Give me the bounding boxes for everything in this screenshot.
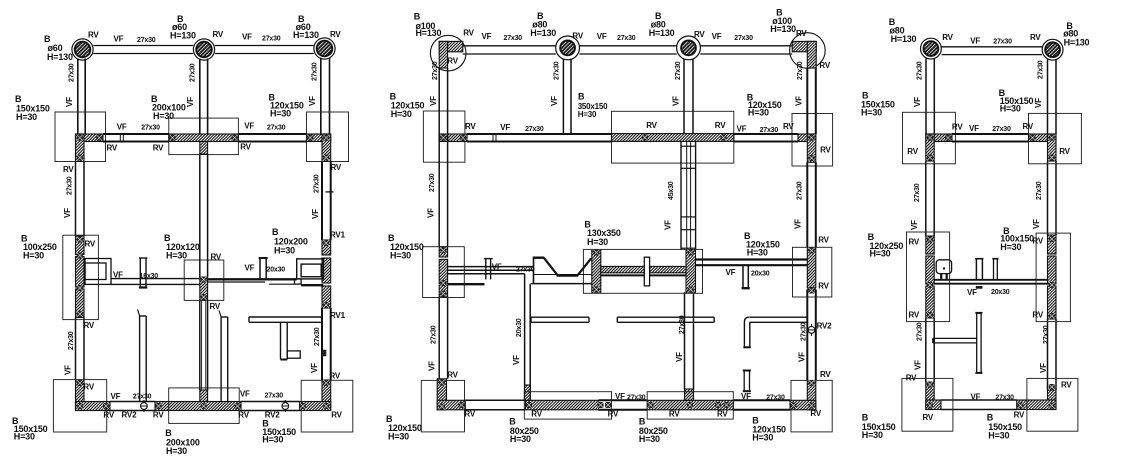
svg-text:27x30: 27x30 (69, 63, 76, 82)
svg-text:RV: RV (330, 30, 341, 39)
column B ø80 P3-C2 (1045, 42, 1060, 57)
center wall P2 hatch at bottom wall (685, 389, 694, 400)
svg-text:H=30: H=30 (14, 432, 35, 442)
svg-text:27x30: 27x30 (760, 127, 779, 134)
svg-text:RV: RV (952, 123, 963, 132)
svg-text:45x30: 45x30 (668, 181, 675, 200)
svg-text:H=30: H=30 (1000, 242, 1021, 252)
top wall P2 hatch center (612, 134, 734, 142)
bottom wall P3 hatch right (1017, 400, 1056, 410)
svg-text:RV: RV (923, 413, 934, 422)
svg-text:RV: RV (1030, 33, 1041, 42)
svg-text:27x30: 27x30 (617, 35, 636, 42)
middle beam left lines VF (111, 278, 200, 280)
column B ø80 P2-C2 (560, 41, 575, 56)
footing F2 top-center 200x100 (169, 118, 239, 155)
svg-text:H=30: H=30 (988, 431, 1009, 441)
svg-text:27x30: 27x30 (1043, 325, 1050, 344)
wall 45x30 P2 below C3 outer (680, 142, 682, 251)
svg-text:H=30: H=30 (388, 432, 409, 442)
footing P2 top-right (792, 114, 833, 167)
marker bar crossing 130x350 beam (644, 257, 649, 286)
wall stub hatch at bottom wall P2 (525, 385, 531, 400)
corner hatch top bar P2 top-right (792, 41, 816, 51)
bottom wall P2 plain seg 2 (733, 399, 790, 401)
svg-text:VF: VF (970, 37, 980, 46)
hatched beam 130x350 horizontal (601, 266, 686, 272)
porch beam 27x30 P1 C1-C2 (93, 45, 193, 47)
svg-text:RV: RV (1032, 311, 1043, 320)
svg-text:VF: VF (186, 97, 195, 107)
drain symbol bottom wall left (141, 400, 148, 412)
middle beam right thin line (208, 281, 266, 283)
svg-text:VF: VF (492, 262, 502, 271)
right wall P2 hatch middle (807, 248, 816, 288)
svg-text:H=30: H=30 (391, 109, 412, 119)
svg-text:H=30: H=30 (861, 107, 882, 117)
svg-text:VF: VF (910, 220, 919, 230)
right wall P2 plain porch (806, 68, 808, 134)
svg-text:VF: VF (64, 365, 73, 375)
footing P2 bottom-left (421, 380, 464, 432)
svg-text:VF: VF (971, 392, 981, 401)
svg-text:RV: RV (820, 370, 831, 379)
middle beam left 16x30 stub (139, 258, 141, 288)
svg-text:RV: RV (240, 142, 251, 151)
svg-text:H=130: H=130 (170, 31, 196, 41)
footing P2 mid-left (423, 247, 465, 298)
svg-text:H=30: H=30 (270, 108, 291, 118)
bottom wall plain seg 2 (241, 401, 300, 403)
svg-text:27x30: 27x30 (525, 126, 544, 133)
interior partition P2 h-seg 2 (617, 316, 714, 318)
svg-text:VF: VF (429, 96, 438, 106)
svg-text:VF: VF (113, 271, 123, 280)
beam 130x350 bottom line (601, 274, 686, 276)
right wall plain upper (321, 162, 323, 241)
corner hatch right bar P2 top-right (807, 41, 816, 68)
svg-text:27x30: 27x30 (800, 322, 807, 341)
footing P3 bottom-left (902, 378, 953, 431)
footing P2 top-left (423, 111, 465, 162)
svg-text:27x30: 27x30 (68, 331, 75, 350)
svg-text:27x30: 27x30 (66, 176, 73, 195)
svg-text:VF: VF (675, 352, 684, 362)
wall 45x30 P2 inner lines (686, 142, 688, 251)
middle beam left outer outline (85, 259, 111, 285)
svg-text:H=30: H=30 (752, 433, 773, 443)
footing P3 top-right (1029, 113, 1082, 163)
svg-text:RV: RV (103, 411, 114, 420)
bracket stub on beam P2 (485, 259, 487, 280)
right wall P3 hatch middle (1048, 235, 1057, 254)
svg-text:20x30: 20x30 (751, 270, 770, 277)
svg-text:H=30: H=30 (862, 430, 883, 440)
top wall P2 plain seg 1 (467, 133, 612, 135)
svg-text:RV2: RV2 (817, 322, 833, 331)
dark tick right wall plan1 (322, 350, 326, 356)
svg-text:H=30: H=30 (1000, 104, 1021, 114)
svg-text:VF: VF (242, 33, 252, 42)
svg-text:H=30: H=30 (390, 251, 411, 261)
svg-text:27x30: 27x30 (516, 266, 535, 273)
footing P2 bottom-center-left (524, 392, 611, 419)
trapezoid down diagonal (544, 258, 558, 275)
corner column B ø100 P2 top-left circle (430, 35, 466, 71)
svg-text:RV: RV (572, 31, 583, 40)
svg-text:RV: RV (153, 411, 164, 420)
left wall P3 hatch bottom corner (926, 382, 934, 410)
svg-text:27x30: 27x30 (314, 327, 321, 346)
svg-text:VF: VF (310, 363, 319, 373)
middle beam right stub (259, 258, 261, 279)
svg-text:RV: RV (464, 410, 475, 419)
bottom wall P2 hatch center-right (647, 400, 733, 410)
footing F7 bottom-left 150x150 (53, 380, 106, 432)
svg-text:H=130: H=130 (293, 30, 319, 40)
svg-text:VF: VF (550, 96, 559, 106)
bottom wall P2 hatch right corner (790, 400, 816, 410)
right wall hatch middle (322, 240, 331, 255)
svg-text:RV1: RV1 (330, 311, 346, 320)
svg-text:VF: VF (597, 32, 607, 41)
svg-text:RV: RV (211, 253, 222, 262)
svg-text:VF: VF (244, 121, 254, 130)
svg-text:RV: RV (1061, 381, 1072, 390)
svg-text:RV: RV (907, 147, 918, 156)
svg-text:VF: VF (1039, 363, 1048, 373)
svg-text:RV: RV (669, 410, 680, 419)
svg-text:16x30: 16x30 (140, 273, 159, 280)
svg-text:H=30: H=30 (747, 247, 768, 257)
svg-text:VF: VF (712, 32, 722, 41)
svg-text:RV: RV (84, 321, 95, 330)
footing P2 bottom-center-right (647, 392, 733, 419)
black tick below beam P3 (976, 286, 982, 288)
svg-text:B: B (15, 94, 22, 104)
column B ø60 P1-C2 (196, 42, 212, 58)
svg-text:H=30: H=30 (587, 237, 608, 247)
center wall hatch below top wall (200, 142, 208, 155)
left wall plain lower (75, 318, 77, 381)
porch wall below C2 (199, 59, 201, 135)
footing P3 mid-right (1036, 233, 1070, 322)
left wall plain upper (75, 162, 77, 237)
svg-text:VF: VF (512, 355, 521, 365)
center wall hatch at bottom wall (200, 390, 208, 402)
svg-text:27x30: 27x30 (995, 395, 1014, 402)
column B ø80 P2-C3 (681, 41, 696, 56)
bottom wall P2 hatch left corner (437, 400, 465, 410)
center wall P2 lower (684, 292, 686, 389)
right wall hatch bottom corner (322, 380, 331, 411)
svg-text:RV: RV (646, 121, 657, 130)
drain symbol bottom wall right (282, 400, 289, 412)
partition P3 vertical leg (280, 322, 282, 360)
svg-text:RV: RV (820, 146, 831, 155)
svg-text:VF: VF (794, 96, 803, 106)
svg-text:H=30: H=30 (639, 434, 660, 444)
svg-text:27x30: 27x30 (993, 38, 1012, 45)
right wall P3 hatch top corner (1048, 134, 1057, 161)
svg-text:RV: RV (330, 371, 341, 380)
svg-text:VF: VF (482, 32, 492, 41)
svg-text:VF: VF (969, 124, 979, 133)
top wall plain seg 1 (103, 133, 169, 135)
svg-text:27x30: 27x30 (917, 322, 924, 341)
top wall P2 hatch right (798, 134, 816, 142)
left wall P2 hatch bottom corner (437, 379, 446, 410)
footing P3 bottom-right (1027, 378, 1078, 431)
svg-text:27x30: 27x30 (312, 62, 319, 81)
column B ø60 P1-C1 (75, 42, 91, 58)
svg-text:RV: RV (694, 30, 705, 39)
svg-text:RV: RV (331, 163, 342, 172)
partition P2 vertical (220, 317, 222, 402)
corner hatch left bar P2 top-left (439, 41, 447, 68)
svg-text:H=130: H=130 (530, 28, 556, 38)
svg-text:27x30: 27x30 (504, 35, 523, 42)
porch beam P2 C3-corner (700, 45, 792, 47)
svg-text:27x30: 27x30 (914, 183, 921, 202)
svg-text:VF: VF (1034, 98, 1043, 108)
svg-text:27x30: 27x30 (314, 174, 321, 193)
svg-text:H=30: H=30 (153, 111, 174, 121)
svg-text:RV: RV (715, 121, 726, 130)
right wall P2 plain lower (806, 290, 808, 381)
svg-text:27x30: 27x30 (679, 315, 686, 334)
svg-text:H=130: H=130 (1064, 37, 1090, 47)
svg-text:H=30: H=30 (274, 246, 295, 256)
column B ø60 P1-C3 (317, 41, 333, 57)
svg-text:20x30: 20x30 (267, 266, 286, 273)
svg-text:RV: RV (465, 122, 476, 131)
svg-text:VF: VF (1032, 219, 1041, 229)
drain symbol right wall P2 (808, 324, 815, 336)
svg-text:27x30: 27x30 (797, 61, 804, 80)
right wall P3 plain upper (1047, 161, 1049, 235)
porch beam P2 C2-C3 (579, 45, 676, 47)
porch wall below P3-C1 (925, 59, 927, 135)
footing P3 top-left (903, 112, 956, 164)
trapezoid up diagonal (578, 258, 592, 275)
svg-text:VF: VF (500, 123, 510, 132)
svg-text:RV: RV (238, 411, 249, 420)
porch wall below C3 (320, 58, 322, 135)
svg-text:H=30: H=30 (870, 249, 891, 259)
svg-text:27x30: 27x30 (1036, 181, 1043, 200)
svg-text:RV1: RV1 (330, 230, 346, 239)
svg-text:RV: RV (909, 311, 920, 320)
svg-text:RV2: RV2 (122, 411, 138, 420)
svg-text:27x30: 27x30 (429, 173, 436, 192)
svg-text:H=30: H=30 (16, 112, 37, 122)
svg-text:RV: RV (85, 240, 96, 249)
right wall P2 hatch below top wall (807, 134, 816, 162)
svg-text:H=30: H=30 (748, 107, 769, 117)
svg-text:H=30: H=30 (510, 434, 531, 444)
hatch band left end 130x350 beam (592, 250, 601, 292)
top wall P3 hatch left (926, 134, 952, 142)
partition P3 foot (287, 351, 300, 358)
middle beam P2 right lines (696, 258, 808, 260)
left wall P3 hatch middle (926, 236, 934, 254)
stub below right beam P2 (742, 265, 744, 288)
wall break tick plan2 top wall (492, 133, 494, 142)
svg-text:RV: RV (210, 302, 221, 311)
footing F8 bottom-center 200x100 (169, 388, 240, 424)
svg-text:RV: RV (1023, 122, 1034, 131)
svg-text:VF: VF (428, 361, 437, 371)
bottom wall hatched seg right (300, 402, 331, 411)
svg-text:H=30: H=30 (578, 110, 597, 119)
partition P1 vertical (139, 316, 141, 402)
svg-text:VF: VF (672, 96, 681, 106)
svg-text:RV: RV (818, 282, 829, 291)
svg-text:27x30: 27x30 (916, 61, 923, 80)
svg-text:RV: RV (906, 373, 917, 382)
corner column B ø100 P2 top-right circle (790, 33, 826, 69)
svg-text:RV: RV (818, 236, 829, 245)
X marks plan3 (927, 135, 933, 141)
svg-text:RV: RV (447, 371, 458, 380)
right wall plain lower (321, 308, 323, 380)
footing P3 mid-left (907, 232, 950, 322)
svg-text:VF: VF (65, 97, 74, 107)
wall stub below beam P2 20x30 (524, 274, 526, 401)
hatch band right end 130x350 beam (686, 250, 696, 292)
svg-text:RV: RV (63, 165, 74, 174)
X marks plan2 (440, 135, 446, 141)
svg-text:27x30: 27x30 (432, 61, 439, 80)
svg-text:VF: VF (117, 123, 127, 132)
left wall P2 plain upper (438, 68, 440, 247)
porch beam 27x30 P1 C2-C3 (215, 45, 314, 47)
porch wall below P2-C2 350x150 (562, 59, 564, 135)
svg-text:RV: RV (1059, 147, 1070, 156)
interior partition P2 h-seg 1 (531, 316, 589, 318)
bottom wall P2 plain gap VF (599, 399, 648, 401)
center wall lower (199, 300, 201, 390)
svg-text:RV: RV (608, 410, 619, 419)
svg-text:H=130: H=130 (649, 28, 675, 38)
T partition P3 vertical (976, 313, 978, 373)
svg-text:27x30: 27x30 (553, 61, 560, 80)
right wall P2 hatch bottom corner (807, 381, 816, 410)
svg-text:27x30: 27x30 (766, 395, 785, 402)
svg-text:20x30: 20x30 (991, 289, 1010, 296)
center wall hatch at middle beam (200, 277, 208, 300)
right wall hatch top corner (322, 134, 331, 162)
trapezoid low thick segment (557, 274, 579, 277)
svg-text:VF: VF (311, 209, 320, 219)
interior partition P2 h-seg 3 with leg (750, 316, 808, 318)
top wall P2 plain seg 2 (734, 133, 798, 135)
svg-text:20x30: 20x30 (516, 318, 523, 337)
svg-text:27x30: 27x30 (992, 126, 1011, 133)
svg-text:H=130: H=130 (416, 28, 442, 38)
middle beam P2 left lines from wall (448, 266, 534, 268)
left wall P2 hatch middle (439, 247, 447, 257)
svg-text:27x30: 27x30 (137, 37, 156, 44)
svg-text:VF: VF (737, 125, 747, 134)
left wall hatch bottom corner (76, 380, 85, 411)
bottom wall P3 plain (941, 399, 1017, 401)
svg-text:27x30: 27x30 (430, 325, 437, 344)
svg-text:H=30: H=30 (166, 250, 187, 260)
svg-text:27x30: 27x30 (796, 181, 803, 200)
X marks plan1 (77, 135, 83, 141)
center wall upper (199, 154, 201, 277)
svg-text:RV: RV (153, 143, 164, 152)
svg-text:VF: VF (245, 263, 255, 272)
svg-text:27x30: 27x30 (265, 392, 284, 399)
left wall P3 plain lower (925, 318, 927, 382)
top wall P3 hatch right (1029, 134, 1057, 142)
svg-text:H=30: H=30 (166, 446, 187, 456)
svg-text:VF: VF (967, 288, 977, 297)
middle beam left inner outline (85, 263, 106, 280)
left wall P2 plain lower (438, 297, 440, 379)
svg-text:27x30: 27x30 (627, 394, 646, 401)
stub above beam P3 no2 (993, 258, 995, 280)
svg-text:VF: VF (914, 360, 923, 370)
corner hatch top bar P2 top-left (439, 41, 463, 51)
svg-text:VF: VF (427, 208, 436, 218)
svg-text:H=30: H=30 (23, 251, 44, 261)
right wall P2 plain upper (806, 162, 808, 247)
porch wall below C1 (77, 59, 79, 135)
footing P2 bottom-right (791, 380, 832, 432)
svg-text:RV: RV (107, 144, 118, 153)
svg-text:H=30: H=30 (262, 435, 283, 445)
svg-text:RV: RV (447, 57, 458, 66)
svg-text:VF: VF (111, 392, 121, 401)
svg-text:RV: RV (909, 238, 920, 247)
svg-text:VF: VF (913, 97, 922, 107)
svg-text:27x30: 27x30 (734, 35, 753, 42)
partition P3 horizontal (249, 316, 322, 318)
svg-text:27x30: 27x30 (262, 35, 281, 42)
svg-text:VF: VF (664, 220, 673, 230)
porch wall below P3-C2 (1047, 60, 1049, 135)
footing rect 130x350 beam (583, 249, 702, 293)
isolated stub P2 bottom (743, 371, 745, 392)
middle beam P3 (934, 279, 1047, 281)
svg-text:VF: VF (308, 96, 317, 106)
footing F5 mid-center 120x120 (184, 260, 224, 300)
svg-text:VF: VF (726, 268, 736, 277)
svg-text:RV: RV (1014, 411, 1025, 420)
svg-text:27x30: 27x30 (141, 124, 160, 131)
svg-text:RV: RV (810, 409, 821, 418)
svg-text:RV: RV (88, 30, 99, 39)
footing P2 top-center wide (612, 111, 734, 163)
svg-text:RV: RV (942, 33, 953, 42)
svg-text:RV: RV (531, 410, 542, 419)
top wall hatched seg center (169, 134, 239, 142)
svg-text:H=130: H=130 (47, 52, 73, 62)
svg-text:RV: RV (1032, 237, 1043, 246)
top wall hatched seg right (307, 134, 331, 142)
footing P2 mid-right (793, 247, 832, 297)
svg-text:H=130: H=130 (770, 24, 796, 34)
middle beam right nested rect inner (301, 264, 321, 277)
right wall P3 plain lower (1047, 319, 1049, 390)
top wall hatched seg left (76, 134, 104, 142)
porch wall below P2-C3 (683, 59, 685, 142)
footing F1 top-left 150x150 (55, 112, 106, 162)
